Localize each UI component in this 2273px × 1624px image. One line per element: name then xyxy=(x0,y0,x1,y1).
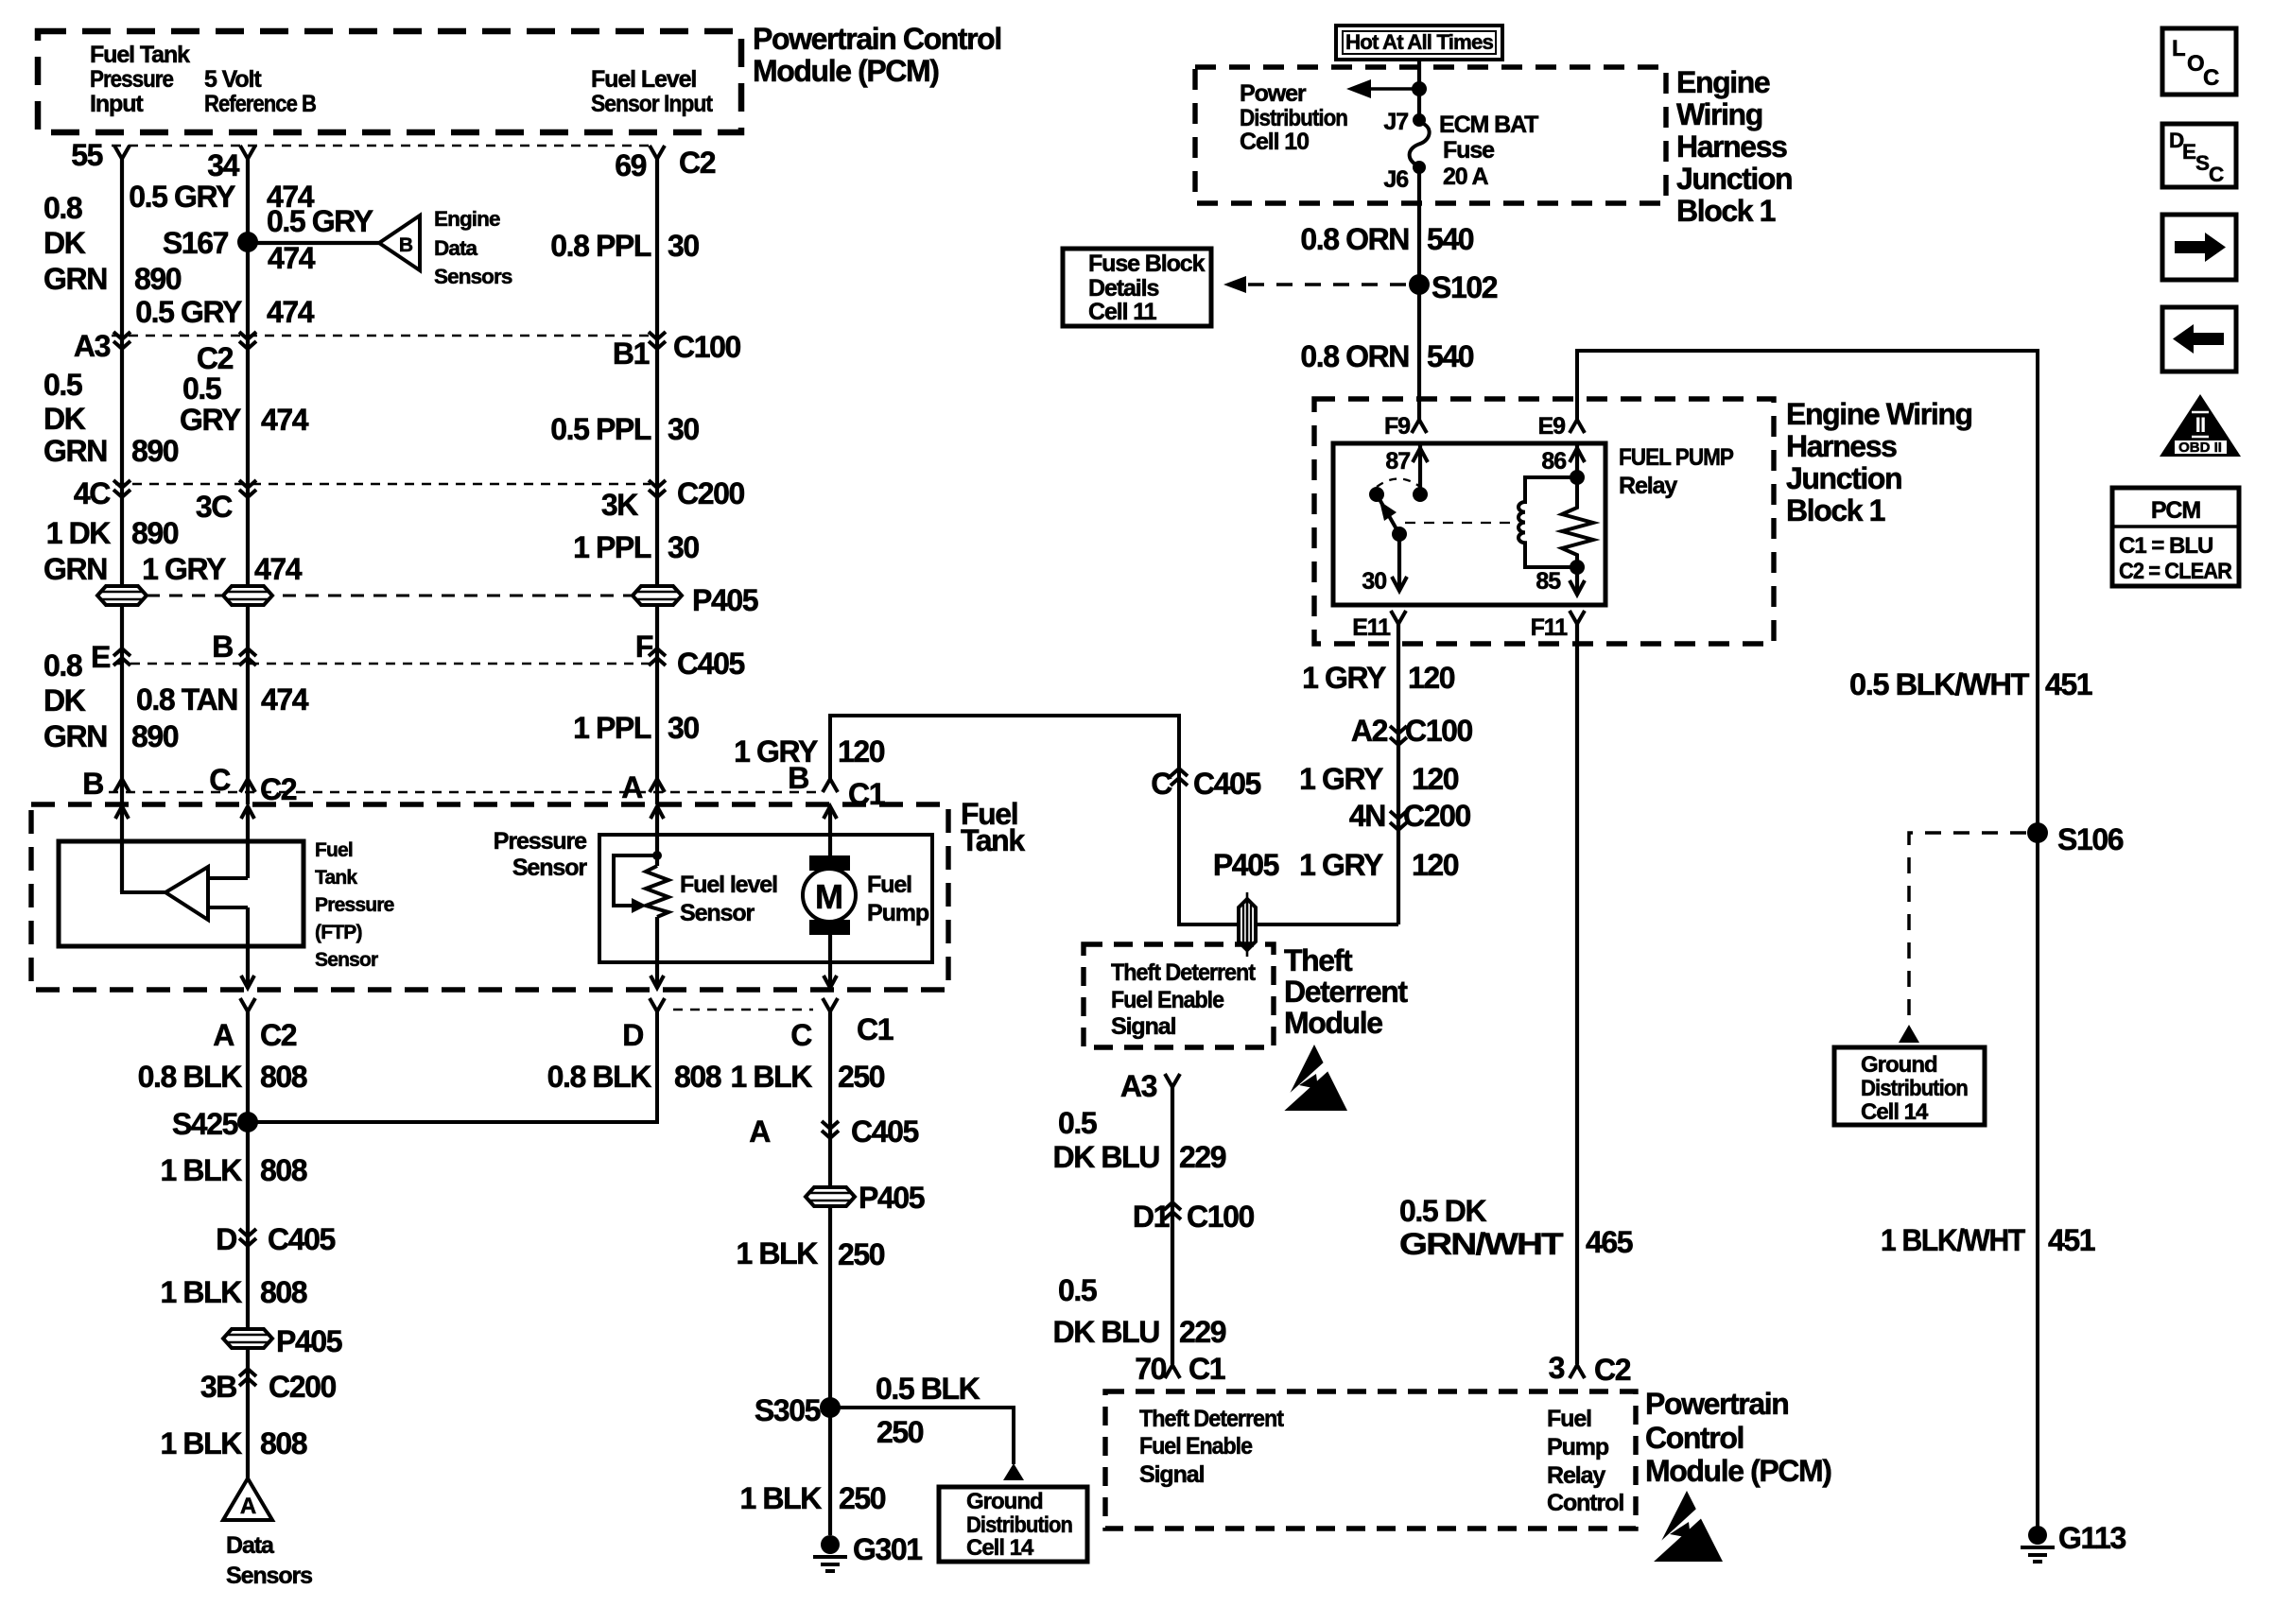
svg-text:DK: DK xyxy=(43,683,86,717)
connector E11 fork xyxy=(1391,611,1406,624)
svg-text:Reference B: Reference B xyxy=(204,91,316,117)
svg-text:890: 890 xyxy=(131,719,179,753)
svg-text:808: 808 xyxy=(260,1153,307,1187)
data sensors triangle A xyxy=(223,1478,272,1520)
svg-text:0.5: 0.5 xyxy=(182,371,221,406)
fuel level sensor wiper xyxy=(652,851,662,860)
svg-text:DK: DK xyxy=(43,226,86,260)
svg-text:II: II xyxy=(2195,413,2206,437)
svg-text:Ground: Ground xyxy=(966,1489,1043,1514)
ground G301 xyxy=(821,1535,840,1554)
svg-text:Sensor: Sensor xyxy=(315,949,378,971)
connector C2 C100 xyxy=(239,332,256,349)
wire 0.5 DK GRN/WHT 465 (fuel pump relay control) xyxy=(1575,624,1579,1364)
svg-text:M: M xyxy=(815,877,843,916)
svg-text:ECM BAT: ECM BAT xyxy=(1439,112,1538,138)
svg-text:S: S xyxy=(2195,151,2210,175)
ESD symbol (PCM) xyxy=(1647,1491,1723,1562)
inline connector P405 on wire 2 xyxy=(223,1329,272,1348)
svg-text:120: 120 xyxy=(1408,661,1455,695)
svg-text:1 GRY: 1 GRY xyxy=(142,552,226,586)
svg-text:Engine: Engine xyxy=(1676,65,1770,99)
svg-text:Control: Control xyxy=(1547,1490,1623,1516)
svg-text:0.8 ORN: 0.8 ORN xyxy=(1300,222,1409,256)
svg-text:Junction: Junction xyxy=(1676,162,1792,196)
connector C C2 xyxy=(240,779,255,792)
fuse ECM BAT 20 A xyxy=(1413,113,1426,127)
wire jog to fuel pump feed xyxy=(830,716,1398,924)
svg-text:G113: G113 xyxy=(2058,1521,2126,1555)
svg-text:120: 120 xyxy=(838,734,885,769)
svg-text:3K: 3K xyxy=(601,488,638,522)
svg-text:C2: C2 xyxy=(197,341,234,375)
svg-text:FUEL PUMP: FUEL PUMP xyxy=(1619,444,1733,471)
svg-text:Theft Deterrent: Theft Deterrent xyxy=(1111,959,1257,986)
ground G113 xyxy=(2028,1526,2047,1545)
svg-text:85: 85 xyxy=(1536,568,1561,595)
ground distribution triangle xyxy=(1899,1025,1919,1043)
svg-text:Tank: Tank xyxy=(961,823,1025,857)
svg-text:F9: F9 xyxy=(1384,413,1410,440)
engine wiring harness junction block 1 dashed box xyxy=(1195,67,1666,203)
svg-text:1 BLK: 1 BLK xyxy=(161,1426,243,1460)
svg-text:1 BLK: 1 BLK xyxy=(737,1236,819,1270)
svg-text:1 GRY: 1 GRY xyxy=(1299,762,1383,796)
splice S305 xyxy=(820,1397,841,1418)
splice S106 xyxy=(2027,822,2048,843)
svg-text:Sensor: Sensor xyxy=(680,900,755,926)
svg-text:Cell 14: Cell 14 xyxy=(966,1535,1034,1561)
svg-text:A: A xyxy=(240,1494,256,1519)
svg-text:Data: Data xyxy=(434,236,478,260)
svg-text:Fuse Block: Fuse Block xyxy=(1088,251,1206,277)
svg-text:Control: Control xyxy=(1645,1421,1744,1455)
svg-text:Fuel Level: Fuel Level xyxy=(591,66,696,93)
wire 0.5 DK BLU 229 (theft deterrent signal) xyxy=(1171,1087,1174,1364)
svg-text:1 GRY: 1 GRY xyxy=(1302,661,1386,695)
relay pin 86 wire and arrow xyxy=(1575,443,1579,481)
connector pin 55 fork xyxy=(114,146,130,159)
connector F11 fork xyxy=(1570,611,1585,624)
svg-text:P405: P405 xyxy=(1213,848,1279,882)
svg-text:0.8: 0.8 xyxy=(43,648,82,682)
PCM bottom dashed box xyxy=(1105,1391,1636,1529)
svg-text:Fuel Enable: Fuel Enable xyxy=(1139,1433,1253,1460)
connector row C100 (fine dashed) xyxy=(112,335,651,337)
connector row C200 (fine dashed) xyxy=(115,483,651,486)
svg-text:Signal: Signal xyxy=(1111,1013,1176,1040)
svg-text:C2: C2 xyxy=(1594,1353,1631,1387)
right arrow icon xyxy=(2162,215,2236,280)
svg-text:C2: C2 xyxy=(260,772,297,806)
svg-text:Sensor Input: Sensor Input xyxy=(591,91,714,117)
wire 1 GRY 120 from relay 30/E11 xyxy=(1397,624,1400,924)
svg-text:30: 30 xyxy=(668,711,699,745)
svg-text:A: A xyxy=(749,1114,771,1149)
wire arrow into tank (wire 3) xyxy=(651,806,664,819)
svg-text:474: 474 xyxy=(267,295,315,329)
svg-text:0.5 PPL: 0.5 PPL xyxy=(550,412,651,446)
svg-text:P405: P405 xyxy=(859,1181,925,1215)
svg-text:1 PPL: 1 PPL xyxy=(573,530,651,564)
wire S305 branch 0.5 BLK 250 to ground distribution xyxy=(830,1408,1014,1464)
wire S425 branch to fuel level sensor ground xyxy=(248,1011,657,1122)
connector 3 C2 fork xyxy=(1570,1365,1585,1378)
PCM connector box (top left, dashed) xyxy=(38,31,741,132)
connector F C405 xyxy=(649,648,666,665)
svg-text:451: 451 xyxy=(2048,1223,2095,1257)
svg-text:C: C xyxy=(790,1018,812,1052)
connector 3B C200 xyxy=(239,1369,256,1386)
connector 3C C200 xyxy=(239,480,256,497)
svg-text:DK BLU: DK BLU xyxy=(1053,1140,1160,1174)
svg-text:Deterrent: Deterrent xyxy=(1284,975,1408,1009)
wire 0.8 DK GRN 890 (pin 55) xyxy=(120,159,124,804)
svg-text:0.5 BLK/WHT: 0.5 BLK/WHT xyxy=(1849,667,2030,701)
connector A3 fork xyxy=(1165,1074,1180,1087)
svg-text:Power: Power xyxy=(1240,80,1307,107)
svg-text:B: B xyxy=(212,630,233,664)
svg-text:250: 250 xyxy=(876,1415,924,1449)
svg-text:30: 30 xyxy=(668,229,699,263)
svg-text:Cell 11: Cell 11 xyxy=(1088,299,1157,325)
splice S167 xyxy=(237,232,258,252)
svg-text:E11: E11 xyxy=(1352,614,1391,641)
fuse block details cell 11 box xyxy=(1063,249,1211,326)
connector 4N C200 xyxy=(1390,811,1407,830)
svg-text:0.5 GRY: 0.5 GRY xyxy=(135,295,242,329)
svg-text:808: 808 xyxy=(674,1060,721,1094)
connector A C2 xyxy=(240,998,255,1011)
svg-text:Fuse: Fuse xyxy=(1443,137,1495,164)
svg-text:474: 474 xyxy=(254,552,303,586)
wire arrow into tank (wire 2) xyxy=(241,806,254,819)
wire arrow to power distribution xyxy=(1369,87,1419,91)
svg-text:Powertrain: Powertrain xyxy=(1645,1387,1788,1421)
svg-text:GRN: GRN xyxy=(43,719,107,753)
connector row P405 (dashed) xyxy=(147,595,632,597)
dashed reference arrow to fuse block details xyxy=(1241,283,1406,286)
ESD symbol (theft deterrent module) xyxy=(1278,1045,1347,1111)
fuel pump motor M xyxy=(809,855,850,871)
wire 0.5 GRY 474 (pin 34) xyxy=(246,159,250,804)
svg-text:474: 474 xyxy=(268,241,316,275)
svg-text:G301: G301 xyxy=(853,1532,922,1566)
svg-text:E: E xyxy=(2182,140,2196,164)
svg-text:GRN: GRN xyxy=(43,434,107,468)
PCM connector legend box xyxy=(2112,488,2239,586)
svg-text:C405: C405 xyxy=(1193,767,1261,801)
fuel pump relay box xyxy=(1333,443,1605,605)
inline connector P405 on wire 2 xyxy=(223,586,272,605)
svg-text:474: 474 xyxy=(261,403,309,437)
wire 2 below tank to data sensors triangle xyxy=(246,1011,250,1478)
svg-text:Fuel Tank: Fuel Tank xyxy=(90,42,190,68)
svg-text:69: 69 xyxy=(615,148,646,182)
svg-text:DK: DK xyxy=(43,402,86,436)
pressure sensor box xyxy=(599,835,932,962)
svg-text:Ground: Ground xyxy=(1861,1052,1937,1078)
svg-text:C1: C1 xyxy=(1189,1352,1225,1386)
connector E C405 xyxy=(113,648,130,665)
svg-text:GRY: GRY xyxy=(180,403,241,437)
svg-text:Distribution: Distribution xyxy=(1861,1076,1968,1101)
svg-text:Engine: Engine xyxy=(434,207,500,231)
wire 4 below tank to G301 xyxy=(828,1011,832,1535)
svg-text:C1 = BLU: C1 = BLU xyxy=(2119,533,2212,559)
svg-text:C: C xyxy=(2209,163,2224,186)
svg-text:120: 120 xyxy=(1412,762,1459,796)
relay pin 85 wire and arrow xyxy=(1575,567,1579,594)
svg-text:1 BLK: 1 BLK xyxy=(161,1275,243,1309)
connector 3K C200 xyxy=(649,480,666,497)
svg-text:E9: E9 xyxy=(1538,413,1566,440)
svg-text:Pressure: Pressure xyxy=(494,828,587,855)
svg-text:20 A: 20 A xyxy=(1443,164,1489,190)
svg-text:B1: B1 xyxy=(613,337,650,371)
connector pin 69 fork C2 xyxy=(650,146,665,159)
svg-text:Sensors: Sensors xyxy=(434,265,512,288)
svg-text:Distribution: Distribution xyxy=(1240,105,1347,131)
wire 0.8 ORN 540 xyxy=(1417,167,1421,420)
svg-text:0.5 GRY: 0.5 GRY xyxy=(129,180,235,214)
ground distribution cell 14 box (right) xyxy=(1834,1047,1985,1125)
svg-text:474: 474 xyxy=(261,682,309,717)
svg-text:Module (PCM): Module (PCM) xyxy=(753,54,939,88)
svg-text:4C: 4C xyxy=(74,476,111,510)
svg-text:1 GRY: 1 GRY xyxy=(1299,848,1383,882)
connector D1 C100 xyxy=(1164,1202,1181,1219)
svg-text:30: 30 xyxy=(668,412,699,446)
svg-text:A: A xyxy=(213,1018,234,1052)
theft deterrent fuel enable signal dashed box xyxy=(1084,944,1274,1047)
connector row below tank (fine dashed) xyxy=(673,1009,813,1011)
svg-text:DK BLU: DK BLU xyxy=(1053,1315,1160,1349)
svg-text:A3: A3 xyxy=(1120,1069,1157,1103)
svg-text:Theft: Theft xyxy=(1284,943,1353,977)
FTP op-amp triangle xyxy=(165,867,208,920)
svg-text:S106: S106 xyxy=(2057,822,2124,856)
svg-text:3C: 3C xyxy=(196,490,233,524)
relay pin 87 wire and arrow xyxy=(1418,443,1422,494)
svg-text:890: 890 xyxy=(131,434,179,468)
svg-text:0.8 BLK: 0.8 BLK xyxy=(138,1060,243,1094)
svg-text:451: 451 xyxy=(2045,667,2092,701)
svg-text:C: C xyxy=(209,763,231,797)
svg-text:OBD II: OBD II xyxy=(2178,440,2222,456)
svg-text:C200: C200 xyxy=(1403,799,1471,833)
svg-text:Powertrain Control: Powertrain Control xyxy=(753,22,1001,56)
svg-text:465: 465 xyxy=(1586,1225,1633,1259)
inline connector P405 on wire 1 xyxy=(97,586,147,605)
svg-text:1 GRY: 1 GRY xyxy=(734,734,818,769)
svg-text:Sensor: Sensor xyxy=(512,855,588,881)
svg-text:34: 34 xyxy=(207,148,239,182)
connector D C1 xyxy=(650,998,665,1011)
connector 4C C200 xyxy=(113,480,130,497)
svg-text:808: 808 xyxy=(260,1060,307,1094)
connector row C2 (fine dashed) xyxy=(112,145,651,147)
svg-text:229: 229 xyxy=(1179,1315,1226,1349)
connector 70 C1 fork xyxy=(1165,1365,1180,1378)
inline connector P405 on wire 4 xyxy=(806,1187,855,1206)
svg-text:Data: Data xyxy=(226,1532,275,1559)
svg-text:S102: S102 xyxy=(1431,270,1498,304)
wire arrow out of tank (wire 2) xyxy=(241,976,254,988)
svg-text:229: 229 xyxy=(1179,1140,1226,1174)
svg-text:Engine Wiring: Engine Wiring xyxy=(1786,397,1972,431)
connector A3 C100 xyxy=(113,332,130,349)
svg-text:C100: C100 xyxy=(1187,1200,1255,1234)
op-amp stub upper to wire 2 xyxy=(208,876,248,880)
OBD II icon xyxy=(2160,394,2241,457)
svg-text:C1: C1 xyxy=(857,1012,894,1046)
LOC icon xyxy=(2162,28,2236,95)
svg-text:E: E xyxy=(91,640,111,674)
svg-text:O: O xyxy=(2187,51,2204,77)
svg-text:Module (PCM): Module (PCM) xyxy=(1645,1454,1831,1488)
svg-text:Module: Module xyxy=(1284,1006,1382,1040)
svg-text:Pressure: Pressure xyxy=(90,66,174,93)
wire from hot feed down xyxy=(1417,60,1421,122)
svg-text:1 BLK: 1 BLK xyxy=(740,1481,823,1515)
svg-text:890: 890 xyxy=(131,516,179,550)
svg-text:Harness: Harness xyxy=(1676,130,1787,164)
svg-text:0.5 BLK: 0.5 BLK xyxy=(876,1372,980,1406)
svg-text:Fuel Enable: Fuel Enable xyxy=(1111,987,1224,1013)
svg-text:A2: A2 xyxy=(1351,714,1388,748)
svg-text:C2: C2 xyxy=(679,146,716,180)
relay coil xyxy=(1518,477,1577,567)
engine wiring harness junction block 1 dashed box (relay) xyxy=(1314,399,1774,644)
svg-text:Fuel level: Fuel level xyxy=(680,872,777,898)
svg-text:0.5 GRY: 0.5 GRY xyxy=(267,204,373,238)
svg-text:C405: C405 xyxy=(268,1222,336,1256)
svg-text:C100: C100 xyxy=(673,330,741,364)
svg-text:55: 55 xyxy=(71,138,102,172)
svg-text:Signal: Signal xyxy=(1139,1461,1205,1488)
svg-text:Harness: Harness xyxy=(1786,429,1897,463)
splice S102 xyxy=(1409,274,1430,295)
svg-text:3: 3 xyxy=(1549,1351,1565,1385)
svg-text:L: L xyxy=(2172,36,2185,61)
op-amp stub lower to wire 2 xyxy=(208,906,248,909)
relay pin 30 wire and arrow xyxy=(1397,534,1401,590)
fuel level sensor resistor xyxy=(646,866,668,917)
svg-text:30: 30 xyxy=(668,530,699,564)
connector E9 fork xyxy=(1570,420,1585,433)
svg-text:Relay: Relay xyxy=(1547,1462,1605,1489)
svg-text:87: 87 xyxy=(1385,448,1410,475)
svg-text:0.5: 0.5 xyxy=(1058,1273,1097,1307)
svg-text:C405: C405 xyxy=(851,1114,919,1149)
svg-text:Input: Input xyxy=(90,91,144,117)
svg-text:Wiring: Wiring xyxy=(1676,97,1762,131)
left arrow icon xyxy=(2162,307,2236,371)
relay switch control dashed link xyxy=(1405,522,1513,524)
svg-text:C405: C405 xyxy=(677,647,745,681)
svg-text:Block 1: Block 1 xyxy=(1786,493,1885,527)
inline connector P405 on wire 3 xyxy=(633,586,682,605)
svg-text:C200: C200 xyxy=(269,1370,337,1404)
svg-text:808: 808 xyxy=(260,1275,307,1309)
svg-text:P405: P405 xyxy=(692,583,758,617)
svg-text:0.5: 0.5 xyxy=(43,368,82,402)
svg-text:Theft Deterrent: Theft Deterrent xyxy=(1139,1406,1285,1432)
svg-text:250: 250 xyxy=(838,1060,885,1094)
ground distribution triangle xyxy=(1003,1463,1024,1480)
svg-text:Pump: Pump xyxy=(867,900,929,926)
svg-text:0.8 ORN: 0.8 ORN xyxy=(1300,339,1409,373)
wire 0.5 BLK/WHT 451 from relay 86/E9 to S106 xyxy=(1577,351,2038,1535)
svg-text:86: 86 xyxy=(1541,448,1566,475)
DESC icon xyxy=(2162,124,2236,187)
svg-text:GRN/WHT: GRN/WHT xyxy=(1399,1227,1564,1261)
svg-text:Relay: Relay xyxy=(1619,473,1677,499)
svg-text:(FTP): (FTP) xyxy=(315,922,362,943)
svg-text:Fuel: Fuel xyxy=(867,872,911,898)
svg-text:Junction: Junction xyxy=(1786,461,1901,495)
connector row C405 (fine dashed) xyxy=(113,663,651,665)
connector pin 34 fork xyxy=(240,146,255,159)
svg-text:1 BLK: 1 BLK xyxy=(161,1153,243,1187)
svg-text:C100: C100 xyxy=(1405,714,1473,748)
svg-text:D: D xyxy=(216,1222,236,1256)
svg-text:GRN: GRN xyxy=(43,552,107,586)
svg-text:A3: A3 xyxy=(74,329,111,363)
svg-text:F: F xyxy=(635,630,653,664)
connector B1 C100 xyxy=(649,332,666,349)
connector B C405 xyxy=(239,648,256,665)
connector row C2/C1 above fuel tank (fine dashed) xyxy=(109,791,819,794)
data link triangle B xyxy=(379,216,420,270)
wire arrow into tank (wire 1) xyxy=(115,806,129,819)
wire into op-amp from wire 1 xyxy=(122,889,165,892)
svg-text:1 DK: 1 DK xyxy=(46,516,112,550)
fuel tank dashed box xyxy=(31,804,948,990)
svg-text:D1: D1 xyxy=(1133,1200,1170,1234)
svg-text:Block 1: Block 1 xyxy=(1676,194,1776,228)
svg-text:Distribution: Distribution xyxy=(966,1512,1072,1538)
wire arrow into tank (wire 4) xyxy=(824,806,837,819)
svg-text:Fuel: Fuel xyxy=(1547,1406,1591,1432)
svg-text:D: D xyxy=(622,1018,643,1052)
svg-text:70: 70 xyxy=(1135,1352,1166,1386)
svg-text:C: C xyxy=(2203,65,2219,91)
connector B C2 xyxy=(114,779,130,792)
connector B C1 xyxy=(823,779,838,792)
ground distribution cell 14 box (left) xyxy=(939,1487,1087,1562)
svg-text:Sensors: Sensors xyxy=(226,1563,312,1589)
svg-text:0.5 DK: 0.5 DK xyxy=(1399,1194,1486,1228)
svg-text:30: 30 xyxy=(1362,568,1386,595)
svg-text:B: B xyxy=(399,234,413,256)
svg-text:S167: S167 xyxy=(163,226,229,260)
node power distribution tap xyxy=(1412,81,1427,96)
svg-text:Tank: Tank xyxy=(315,867,357,889)
svg-text:5 Volt: 5 Volt xyxy=(204,66,262,93)
connector F9 fork xyxy=(1412,420,1427,433)
connector D C405 xyxy=(239,1229,256,1246)
inline connector P405 (vertical) xyxy=(1239,899,1256,950)
svg-text:B: B xyxy=(82,767,103,801)
svg-text:0.8 PPL: 0.8 PPL xyxy=(550,229,651,263)
svg-text:GRN: GRN xyxy=(43,262,107,296)
svg-text:C200: C200 xyxy=(677,476,745,510)
svg-text:4N: 4N xyxy=(1349,799,1385,833)
svg-text:808: 808 xyxy=(260,1426,307,1460)
connector C C1 xyxy=(823,998,838,1011)
